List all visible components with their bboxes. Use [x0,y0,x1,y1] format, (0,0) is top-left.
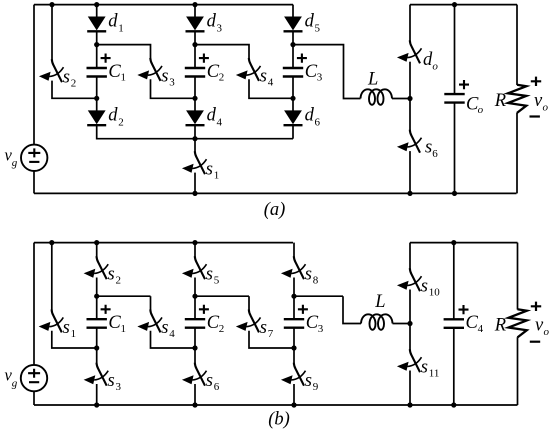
svg-text:4: 4 [478,323,484,335]
svg-text:7: 7 [268,328,274,340]
svg-text:g: g [12,377,18,389]
svg-text:C: C [207,313,220,333]
svg-text:s: s [305,265,312,285]
svg-text:3: 3 [116,381,122,393]
svg-text:5: 5 [315,22,321,34]
svg-text:2: 2 [116,275,122,287]
svg-text:4: 4 [268,76,274,88]
svg-text:6: 6 [432,148,438,160]
svg-text:C: C [108,62,121,82]
svg-text:s: s [63,318,70,338]
svg-text:6: 6 [315,117,321,129]
svg-text:s: s [206,265,213,285]
svg-text:o: o [478,104,484,116]
svg-text:s: s [425,138,432,158]
svg-text:s: s [206,371,213,391]
svg-text:3: 3 [169,76,175,88]
svg-text:L: L [367,69,378,89]
svg-text:o: o [432,60,438,72]
svg-text:(a): (a) [264,200,286,220]
svg-text:3: 3 [318,323,324,335]
svg-text:d: d [108,12,118,32]
svg-text:o: o [543,102,549,114]
svg-text:9: 9 [313,381,319,393]
svg-text:1: 1 [121,72,127,84]
svg-text:3: 3 [217,22,223,34]
svg-text:s: s [260,318,267,338]
svg-text:5: 5 [214,275,220,287]
svg-text:d: d [108,106,118,126]
svg-text:s: s [161,66,168,86]
svg-text:2: 2 [219,72,225,84]
svg-text:4: 4 [217,117,223,129]
svg-text:2: 2 [219,323,225,335]
svg-text:d: d [207,106,217,126]
svg-text:8: 8 [313,275,319,287]
svg-text:s: s [260,66,267,86]
svg-text:s: s [108,371,115,391]
svg-text:o: o [544,326,550,338]
svg-text:1: 1 [214,170,220,182]
svg-text:2: 2 [71,78,77,90]
svg-text:d: d [207,12,217,32]
svg-text:d: d [305,106,315,126]
svg-text:L: L [374,292,385,312]
svg-text:C: C [305,62,318,82]
svg-text:C: C [108,313,121,333]
svg-text:(b): (b) [268,410,290,430]
svg-text:s: s [108,265,115,285]
svg-text:s: s [206,160,213,180]
svg-text:R: R [494,315,506,335]
svg-text:11: 11 [429,368,440,380]
svg-text:s: s [421,358,428,378]
svg-text:4: 4 [169,328,175,340]
svg-text:2: 2 [118,117,124,129]
svg-text:d: d [305,12,315,32]
svg-text:3: 3 [317,72,323,84]
svg-text:s: s [161,318,168,338]
svg-text:s: s [63,68,70,88]
svg-text:C: C [207,62,220,82]
svg-text:10: 10 [429,287,441,299]
svg-text:g: g [12,157,18,169]
svg-text:1: 1 [71,328,77,340]
svg-text:C: C [466,313,479,333]
svg-text:6: 6 [214,381,220,393]
svg-text:1: 1 [118,22,124,34]
svg-text:C: C [306,313,319,333]
svg-text:1: 1 [121,323,127,335]
svg-text:s: s [305,371,312,391]
svg-text:s: s [421,277,428,297]
svg-text:R: R [494,91,506,111]
